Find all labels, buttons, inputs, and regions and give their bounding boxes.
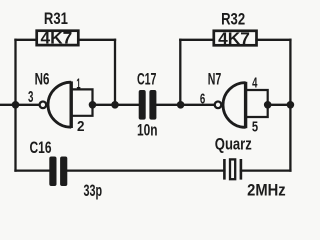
wire quartz to right vertical [241,169,291,171]
svg-text:4K7: 4K7 [41,30,73,48]
wire C17 to N7 input [156,104,213,106]
svg-text:6: 6 [200,90,205,107]
svg-text:3: 3 [28,89,33,106]
svg-text:Quarz: Quarz [215,135,252,153]
wire R32 top left lead [180,39,214,41]
svg-text:10n: 10n [137,121,158,139]
capacitor C17 plates [139,90,157,120]
svg-text:R32: R32 [221,11,245,29]
wire right vertical [289,40,291,171]
wire C16 to quartz [67,169,224,171]
svg-text:2MHz: 2MHz [247,182,286,200]
node N6 output junction [89,101,97,109]
node R32/C17 junction [177,101,185,109]
nand-gate N7 body (inputs tied, used as inverter) [215,82,246,128]
wire main input segment left edge to N6 [0,104,39,106]
svg-text:1: 1 [76,75,80,92]
nand-gate N6 body (inputs tied, used as inverter) [40,81,72,128]
svg-text:N6: N6 [35,71,50,89]
node right junction [287,101,295,109]
svg-text:4K7: 4K7 [218,30,250,48]
wire R31 top right lead [78,39,115,41]
wire R32 top right lead [257,39,291,41]
svg-text:33p: 33p [84,182,103,200]
node input junction [12,101,20,109]
wire left feedback vertical [14,40,16,171]
svg-text:N7: N7 [208,71,222,89]
svg-text:2: 2 [77,118,85,135]
wire N7 output to right node [268,104,291,106]
wire R31 top left lead [16,39,37,41]
wire N7 pin5 bracket [247,105,268,117]
resistor R31 [37,31,79,45]
wire N6 output to C17 [93,104,140,106]
wire R31 feedback drop to output node [114,40,116,105]
svg-text:4: 4 [252,74,258,91]
capacitor C16 plates [49,157,67,187]
svg-text:R31: R31 [44,10,68,28]
node R31 feedback junction [111,101,119,109]
wire N6 pin1 bracket [72,89,92,104]
svg-text:C16: C16 [30,139,52,157]
wire bottom left to C16 [16,169,50,171]
svg-text:5: 5 [252,119,259,136]
wire N7 pin4 bracket [247,90,268,105]
svg-text:C17: C17 [137,71,157,89]
node N7 output junction [264,101,272,109]
wire R32 feedback drop [179,40,181,105]
crystal Y1 quartz 2MHz symbol [224,159,241,180]
resistor R32 [214,31,257,46]
wire N6 pin2 bracket [72,105,92,116]
